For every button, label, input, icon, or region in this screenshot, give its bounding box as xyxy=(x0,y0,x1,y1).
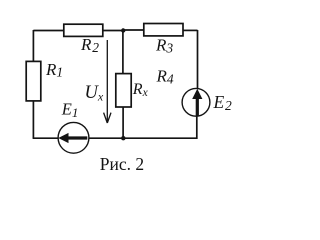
wire left side lower xyxy=(32,101,34,138)
node junction bottom xyxy=(121,136,125,140)
wire right side upper xyxy=(197,30,199,89)
wire bottom E1 to junction xyxy=(89,137,124,139)
svg-text:Rx: Rx xyxy=(132,81,149,99)
svg-text:Рис. 2: Рис. 2 xyxy=(100,154,144,174)
current source E2 xyxy=(182,88,210,116)
wire between top junction and R3 xyxy=(124,29,144,31)
voltage arrow Ux xyxy=(104,40,111,123)
svg-text:R1: R1 xyxy=(45,60,63,80)
resistor R3 xyxy=(144,24,183,36)
wire right side lower xyxy=(196,116,198,139)
wire bottom left to E1 xyxy=(33,137,59,139)
resistor R1 xyxy=(26,61,41,101)
wire bottom junction to right corner xyxy=(124,137,197,139)
resistor Rx xyxy=(116,74,131,107)
svg-text:E2: E2 xyxy=(213,92,233,113)
node junction top xyxy=(121,28,125,32)
svg-text:Ux: Ux xyxy=(85,83,104,103)
resistor R2 xyxy=(64,24,103,36)
wire between R2 and top junction xyxy=(103,30,124,32)
wire middle branch upper xyxy=(122,31,124,74)
svg-text:R3: R3 xyxy=(155,36,173,56)
svg-text:R2: R2 xyxy=(80,35,99,55)
svg-text:E1: E1 xyxy=(61,100,79,120)
current source E1 xyxy=(58,122,89,153)
wire middle branch lower xyxy=(122,107,124,138)
wire top-right segment xyxy=(183,29,198,31)
wire top-left segment xyxy=(33,30,64,32)
svg-text:R4: R4 xyxy=(156,67,174,87)
wire left side upper xyxy=(32,30,34,62)
